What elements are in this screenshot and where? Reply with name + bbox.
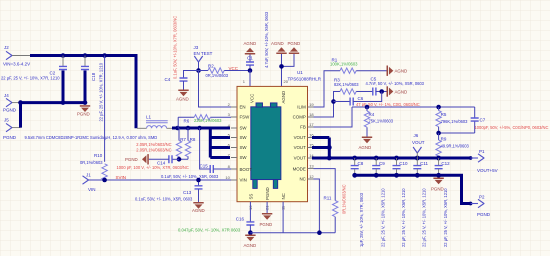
svg-text:4.7nF, 50 V, +/- 10%, X5R, 060: 4.7nF, 50 V, +/- 10%, X5R, 0603 <box>366 81 425 86</box>
U1 pin names left <box>240 105 253 183</box>
svg-text:EN TEST: EN TEST <box>194 51 213 56</box>
capacitor C6 <box>331 92 420 107</box>
svg-text:4.7uF, 50V, +/-10%, X5R, 0603: 4.7uF, 50V, +/-10%, X5R, 0603 <box>264 11 269 68</box>
connector J5 <box>3 118 21 140</box>
svg-text:AGND: AGND <box>244 41 257 46</box>
node dot R7 bottom <box>177 157 182 162</box>
capacitor C10 <box>393 158 409 247</box>
wire SVIN sense branch <box>104 56 106 162</box>
ground PGND (pin20 tie) <box>288 41 301 54</box>
node dots output rail <box>352 173 357 178</box>
svg-text:C4: C4 <box>165 77 171 82</box>
resistor R11 (MODE) <box>314 169 347 233</box>
connector J3 <box>194 45 213 62</box>
resistor R9 (sense) <box>436 131 470 158</box>
inductor L1 <box>137 114 172 128</box>
svg-text:BOOT: BOOT <box>240 167 253 172</box>
resistor R8 <box>179 128 196 159</box>
capacitor C12 <box>435 158 451 247</box>
svg-text:1μF, 25V, +/- 10%, X7R, 0603: 1μF, 25V, +/- 10%, X7R, 0603 <box>359 192 364 247</box>
ground AGND (C4) <box>176 90 189 102</box>
node dots on PGND rail <box>61 100 66 105</box>
svg-text:796K,1%/0603: 796K,1%/0603 <box>441 119 469 124</box>
svg-text:17: 17 <box>309 122 314 127</box>
connector J4 <box>3 93 21 113</box>
wire output PGND rail <box>355 175 471 203</box>
svg-text:TPS61088RHLR: TPS61088RHLR <box>288 77 322 82</box>
ground AGND (R1) <box>387 66 408 76</box>
svg-text:J5: J5 <box>4 118 9 123</box>
svg-text:PGND: PGND <box>125 157 138 162</box>
svg-text:10: 10 <box>225 175 230 180</box>
svg-text:19: 19 <box>309 102 314 107</box>
svg-text:SW: SW <box>240 126 248 131</box>
svg-text:100K,1%/0603: 100K,1%/0603 <box>330 62 358 67</box>
svg-text:R2: R2 <box>208 64 214 69</box>
node dots VOUT bus <box>327 145 332 150</box>
svg-text:C1: C1 <box>247 56 253 61</box>
ground AGND (C16) <box>244 230 257 247</box>
svg-text:VOUT: VOUT <box>294 156 307 161</box>
svg-text:P2: P2 <box>479 195 485 200</box>
svg-text:0.1uF, 50V, +/- 10%, X5R, 0603: 0.1uF, 50V, +/- 10%, X5R, 0603 <box>135 196 193 201</box>
svg-text:PGND: PGND <box>3 135 17 140</box>
svg-text:R9: R9 <box>441 137 447 142</box>
ground AGND (C5) <box>379 86 407 96</box>
wire EN <box>199 71 232 108</box>
U1 left pin stubs <box>231 107 237 180</box>
node dot VCC <box>248 68 253 73</box>
capacitor C13 <box>135 180 203 202</box>
svg-text:2.05R,1%/0603/NC: 2.05R,1%/0603/NC <box>136 148 171 153</box>
U1 pin numbers right <box>309 102 314 179</box>
svg-text:0R,1%/0603/NC: 0R,1%/0603/NC <box>341 184 346 214</box>
resistor R3 (COMP) <box>314 77 373 117</box>
capacitor C18 <box>81 56 103 122</box>
svg-text:AGND: AGND <box>244 243 257 248</box>
resistor R2 <box>199 64 251 78</box>
svg-text:C11: C11 <box>420 161 428 166</box>
svg-text:0.1uF, 50V, +/-10%, X7R, 0603/: 0.1uF, 50V, +/-10%, X7R, 0603/NC <box>172 16 177 79</box>
svg-text:AGND: AGND <box>395 90 408 95</box>
wire VIN input rail <box>30 56 136 129</box>
connector J2 <box>3 45 30 67</box>
resistor R7 <box>176 128 186 159</box>
svg-text:AGND: AGND <box>192 208 205 213</box>
svg-text:SW: SW <box>240 135 248 140</box>
svg-text:AGND: AGND <box>271 41 284 46</box>
svg-text:82K,1%/0603: 82K,1%/0603 <box>334 82 359 87</box>
svg-text:J4: J4 <box>4 93 9 98</box>
svg-text:SS: SS <box>248 194 253 200</box>
wire SS/NC bottom net <box>250 232 335 234</box>
resistor R6 <box>178 115 231 128</box>
svg-text:12: 12 <box>309 174 314 179</box>
svg-text:C7: C7 <box>480 117 486 122</box>
svg-text:R6: R6 <box>184 119 190 124</box>
svg-text:PGND: PGND <box>431 187 444 192</box>
capacitor C2 <box>1 56 67 103</box>
capacitor C7 <box>439 107 549 133</box>
svg-text:AGND: AGND <box>395 69 408 74</box>
wire SS pin <box>249 202 251 222</box>
svg-text:9.5x8.7mm CDMC8D28NP-1R2MC Sum: 9.5x8.7mm CDMC8D28NP-1R2MC Sumida μH, 12… <box>25 135 158 140</box>
ground PGND (output) <box>431 178 444 192</box>
svg-text:PGND: PGND <box>477 212 491 217</box>
svg-text:VIN: VIN <box>240 178 247 183</box>
ground PGND (snubber) <box>125 154 149 164</box>
svg-text:PGND: PGND <box>77 112 90 117</box>
svg-text:22 μF, 25 V, +/- 10%, X7R, 121: 22 μF, 25 V, +/- 10%, X7R, 1210 <box>1 76 60 81</box>
svg-text:C2: C2 <box>50 70 56 75</box>
svg-text:VOUT: VOUT <box>294 135 307 140</box>
svg-text:FSW: FSW <box>240 115 251 120</box>
wire VCC pin stub <box>249 71 251 87</box>
capacitor C9 <box>372 158 385 247</box>
U1 pin names right <box>293 105 307 182</box>
svg-text:VCC: VCC <box>249 94 254 103</box>
svg-text:C18: C18 <box>91 72 96 81</box>
resistor R1 (ILIM) <box>314 57 387 107</box>
svg-text:R10: R10 <box>94 153 103 158</box>
svg-text:FB: FB <box>300 125 306 130</box>
connector P1 <box>469 156 473 160</box>
svg-text:2.05R,1%/0603/NC: 2.05R,1%/0603/NC <box>136 142 171 147</box>
connector J6 <box>412 133 425 158</box>
svg-text:C13: C13 <box>183 190 192 195</box>
svg-text:MODE: MODE <box>293 166 306 171</box>
wire NC pin12 <box>314 179 320 233</box>
svg-text:0.1uF, 50V, +/- 10%, X5R, 0603: 0.1uF, 50V, +/- 10%, X5R, 0603 <box>161 174 219 179</box>
ground PGND (pin21) <box>260 202 273 227</box>
svg-text:0R,1%/0603: 0R,1%/0603 <box>206 73 229 78</box>
svg-text:AGND: AGND <box>176 96 189 101</box>
svg-text:75K,1%/0603: 75K,1%/0603 <box>369 119 394 124</box>
svg-text:VIN=3.6-4.2V: VIN=3.6-4.2V <box>3 62 30 67</box>
wire SW node <box>172 127 230 130</box>
connector J1 <box>83 173 96 193</box>
ground AGND (pin20) <box>271 41 287 54</box>
svg-text:SW: SW <box>240 155 248 160</box>
U1 right pin stubs <box>308 107 314 179</box>
svg-text:13: 13 <box>309 163 314 168</box>
wire NC pin11 <box>282 202 284 233</box>
svg-text:PGND: PGND <box>3 108 17 113</box>
svg-text:R7: R7 <box>180 137 186 142</box>
node junction dots on VIN rail <box>61 53 66 58</box>
svg-text:C16: C16 <box>236 217 245 222</box>
svg-text:NC: NC <box>299 177 305 182</box>
svg-text:C9: C9 <box>379 161 385 166</box>
capacitor C15 (BOOT) <box>161 128 231 179</box>
op-amp U1 TPS61088RHLR body <box>237 70 322 202</box>
node dots SW line <box>175 126 180 131</box>
capacitor C4 <box>165 16 199 90</box>
svg-text:C12: C12 <box>441 161 450 166</box>
wire AGND pin stub <box>282 54 295 86</box>
wire VIN to U1 <box>89 179 232 181</box>
node dot EN <box>196 68 201 73</box>
ground AGND (R4) <box>359 137 373 150</box>
capacitor C11 <box>413 158 428 247</box>
wire FB node <box>314 107 475 127</box>
svg-text:VOUT+5V: VOUT+5V <box>477 168 498 173</box>
svg-text:SW: SW <box>240 145 248 150</box>
node dot SVIN/R10 <box>102 178 107 183</box>
U1 pin numbers left <box>225 102 230 180</box>
svg-text:J1: J1 <box>86 173 91 178</box>
svg-text:J2: J2 <box>4 45 9 50</box>
svg-text:SVIN: SVIN <box>116 175 127 180</box>
svg-text:22 μF, 25 V, +/- 10%, X5R, 121: 22 μF, 25 V, +/- 10%, X5R, 1210 <box>401 188 406 247</box>
svg-text:VOUT: VOUT <box>412 140 425 145</box>
svg-text:1000pF, 50V, +/-5%, C0G/NP0, 0: 1000pF, 50V, +/-5%, C0G/NP0, 0603/NC <box>475 125 549 130</box>
svg-text:22 μF, 25 V, +/- 10%, X5R, 121: 22 μF, 25 V, +/- 10%, X5R, 1210 <box>422 188 427 247</box>
svg-text:PGND: PGND <box>260 222 273 227</box>
capacitor C16 <box>178 217 254 233</box>
wire VOUT bus <box>312 138 471 159</box>
svg-text:C10: C10 <box>399 161 408 166</box>
svg-text:AGND: AGND <box>359 145 372 150</box>
resistor R10 <box>80 153 107 180</box>
svg-text:R5: R5 <box>441 112 447 117</box>
svg-text:C8: C8 <box>358 161 364 166</box>
svg-text:22 μF, 25 V, +/- 10%, X5R, 121: 22 μF, 25 V, +/- 10%, X5R, 1210 <box>443 188 448 247</box>
svg-text:U1: U1 <box>297 70 303 75</box>
svg-text:225K,1%/0603: 225K,1%/0603 <box>194 118 222 123</box>
svg-text:J3: J3 <box>194 45 199 50</box>
connector P2 <box>469 202 473 206</box>
svg-text:1000 pF, 100 V, +/- 10%, X7R,: 1000 pF, 100 V, +/- 10%, X7R, 0603/NC <box>117 165 189 170</box>
capacitor C14 <box>117 155 189 170</box>
svg-text:R4: R4 <box>369 112 375 117</box>
svg-text:P1: P1 <box>479 149 485 154</box>
svg-text:J6: J6 <box>414 133 419 138</box>
resistor R4 (FB low) <box>364 107 394 137</box>
ground PGND (input caps) <box>77 105 90 116</box>
svg-text:C6: C6 <box>358 96 364 101</box>
svg-text:0.047μF, 50V, +/- 10%, X7R 060: 0.047μF, 50V, +/- 10%, X7R 0603 <box>178 227 241 232</box>
svg-text:22 μF, 25 V, +/- 10%, X5R, 121: 22 μF, 25 V, +/- 10%, X5R, 1210 <box>381 188 386 247</box>
svg-text:EN: EN <box>240 105 246 110</box>
svg-text:PGND: PGND <box>288 41 301 46</box>
ground AGND (C13) <box>192 202 205 213</box>
wire PGND input rail <box>21 103 86 128</box>
resistor R5 (FB high) <box>436 107 468 133</box>
svg-text:49.9R,1%/0603: 49.9R,1%/0603 <box>441 144 470 149</box>
capacitor C8 <box>351 158 364 247</box>
svg-text:COMP: COMP <box>293 115 306 120</box>
svg-text:VIN: VIN <box>88 187 96 192</box>
svg-text:L1: L1 <box>146 114 152 119</box>
svg-text:VCC: VCC <box>229 66 239 71</box>
svg-text:AGND: AGND <box>281 91 286 104</box>
capacitor C5 <box>366 77 425 96</box>
svg-text:0R,1%/0603: 0R,1%/0603 <box>80 160 103 165</box>
svg-text:R8: R8 <box>190 137 196 142</box>
svg-text:ILIM: ILIM <box>297 105 306 110</box>
svg-text:C15: C15 <box>200 164 209 169</box>
svg-text:18: 18 <box>309 112 314 117</box>
svg-text:VOUT: VOUT <box>294 145 307 150</box>
svg-text:R11: R11 <box>324 196 332 201</box>
svg-text:22 μF, 25 V, +/- 10%, X7R, 121: 22 μF, 25 V, +/- 10%, X7R, 1210 <box>98 62 103 121</box>
wire J3 to EN node <box>198 62 200 71</box>
svg-text:NC: NC <box>281 193 286 199</box>
ground AGND (C1) <box>244 41 257 55</box>
capacitor C1 <box>246 11 269 70</box>
svg-text:PGND: PGND <box>265 187 270 200</box>
node dot C13 tap <box>196 178 201 183</box>
